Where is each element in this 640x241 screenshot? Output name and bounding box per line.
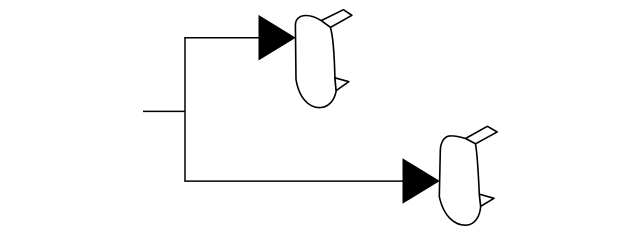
wire vertical bus	[184, 38, 186, 181]
arrowhead A2	[403, 159, 439, 203]
wire input stub	[143, 110, 185, 112]
arrowhead A1	[259, 16, 295, 60]
icon 2 body	[439, 136, 480, 225]
wire top branch	[184, 37, 259, 39]
icon 1 flag	[321, 10, 352, 28]
wire bottom branch	[184, 180, 403, 182]
icon 2 flag	[466, 126, 498, 144]
icon 1 body	[295, 15, 336, 107]
icon 2 tail triangle	[479, 194, 494, 206]
icon 1 tail triangle	[335, 78, 349, 91]
